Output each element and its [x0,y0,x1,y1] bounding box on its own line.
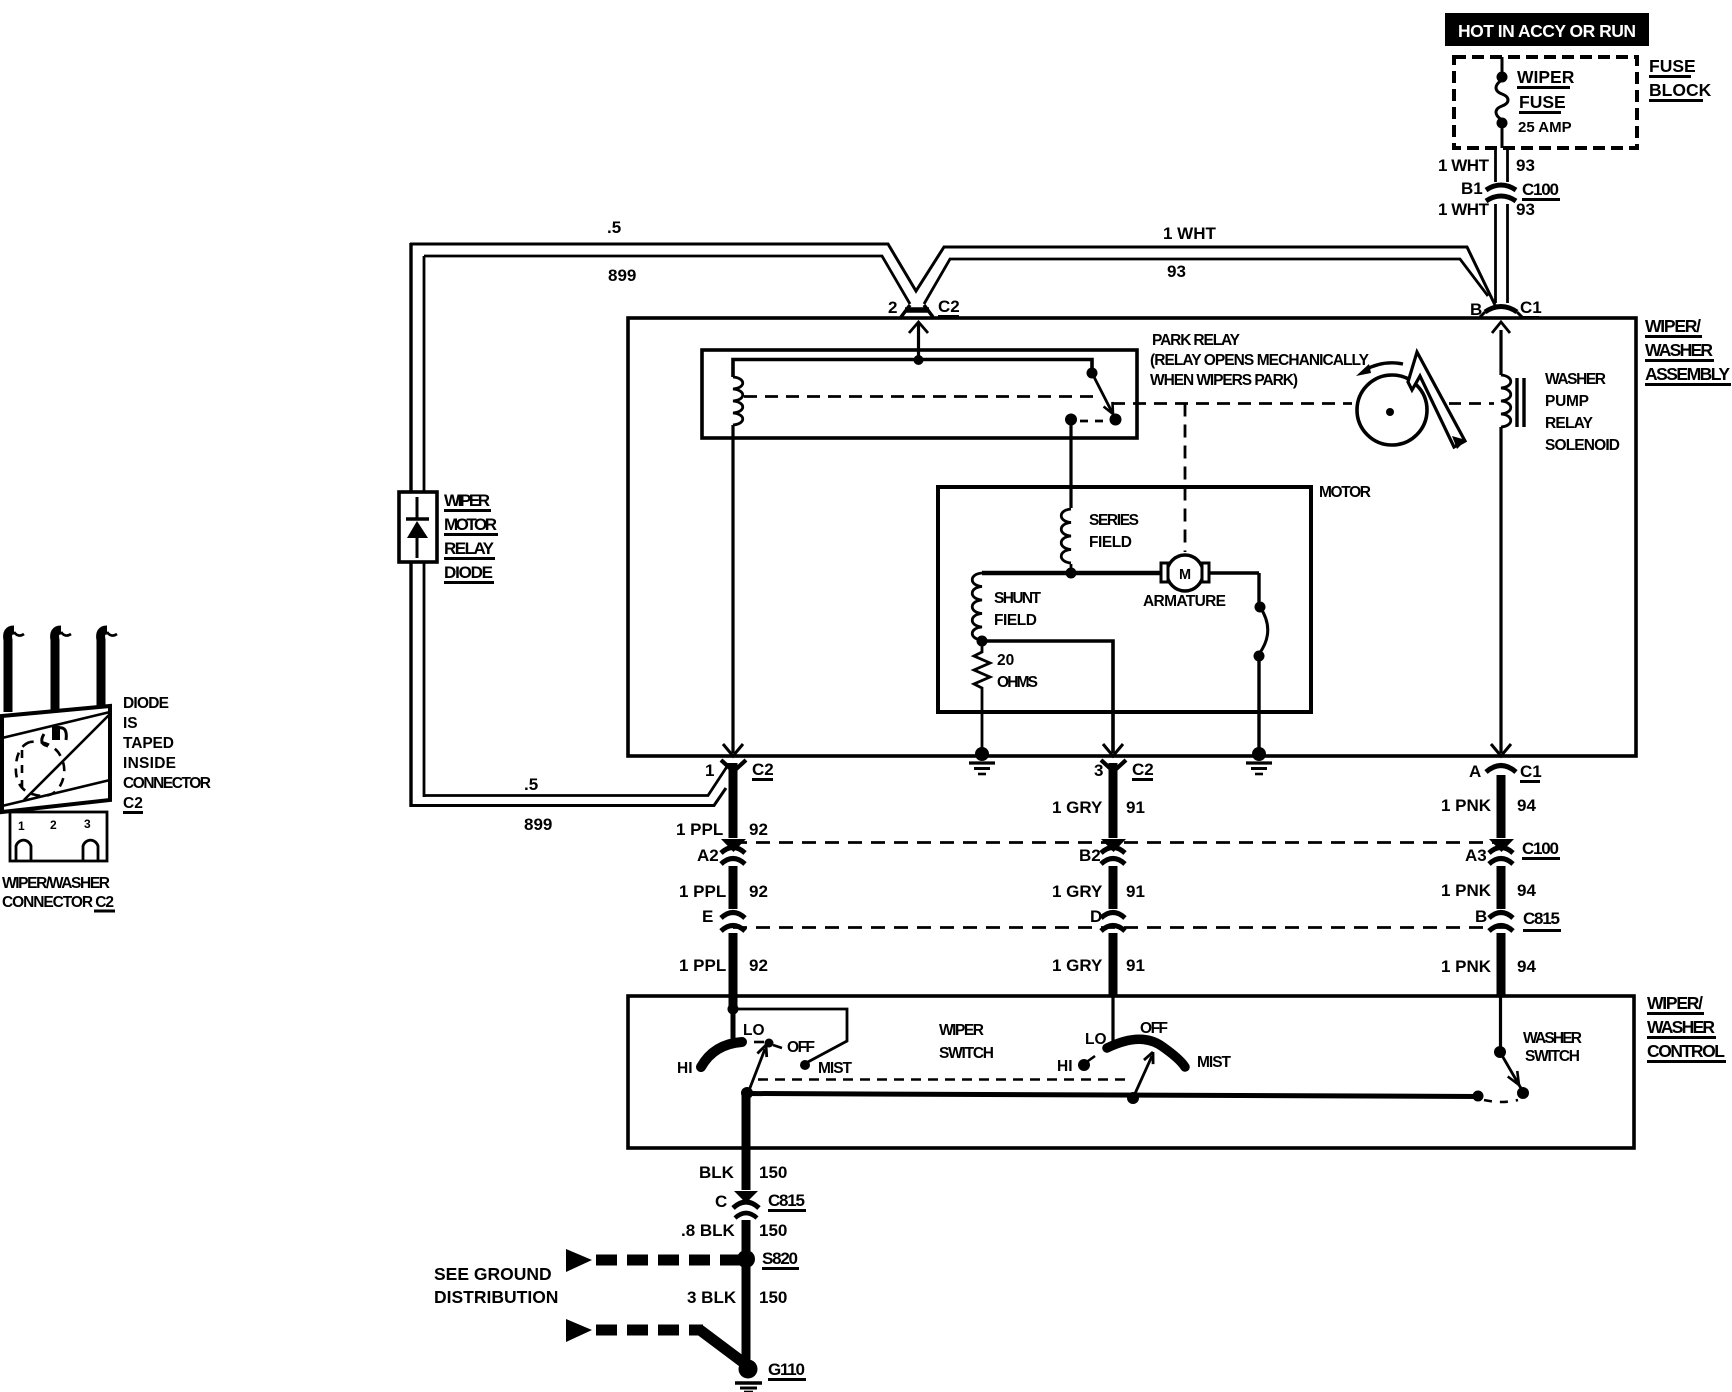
svg-text:94: 94 [1517,957,1536,976]
label washer pump relay solenoid [1545,371,1620,454]
svg-text:C2: C2 [938,297,960,316]
HI contact dot right [1078,1059,1090,1071]
svg-text:WIPER: WIPER [939,1022,984,1039]
svg-text:S820: S820 [762,1249,798,1268]
svg-text:3 BLK: 3 BLK [687,1288,737,1307]
wire fuse to C100 (ckt 93) [1496,148,1508,182]
svg-text:1 PNK: 1 PNK [1441,881,1492,900]
label WIPER/WASHER ASSEMBLY [1645,316,1731,385]
labels wire gauges row 2 [679,881,1536,901]
svg-text:B2: B2 [1079,846,1101,865]
fuse block dashed box [1454,57,1637,148]
svg-text:C100: C100 [1522,180,1559,199]
connector C2 pin 1 (arrow down + symbol) [705,744,774,780]
armature brush circuit to ground [1209,573,1268,754]
splice S820 [737,1249,799,1269]
svg-text:C1: C1 [1520,298,1542,317]
svg-text:1 GRY: 1 GRY [1052,798,1103,817]
wiper/washer connector C2 body (diode taped inside) [2,706,110,812]
svg-text:A: A [1469,762,1481,781]
svg-text:WIPER: WIPER [444,491,490,510]
fuse block label [1649,56,1712,101]
wiper switch left wiper blade [748,1043,771,1093]
svg-text:G110: G110 [768,1360,805,1379]
wire coil to C2 pin 1 exit [731,425,734,753]
svg-text:150: 150 [759,1221,787,1240]
svg-text:B: B [1470,300,1482,319]
svg-text:HI: HI [1057,1058,1073,1075]
svg-text:RELAY: RELAY [1545,415,1594,432]
svg-text:MIST: MIST [818,1060,853,1077]
wire C2 pin2 into park relay coil (arrow up) [909,322,928,365]
svg-text:.5: .5 [524,775,538,794]
wire resistor to ground [981,692,984,754]
ground G (shunt) [969,747,995,774]
ground distribution branch upper (dashed) [566,1249,740,1272]
power feed banner HOT IN ACCY OR RUN [1445,13,1649,46]
ground G110 [735,1360,806,1392]
svg-text:C100: C100 [1522,839,1559,858]
svg-text:150: 150 [759,1163,787,1182]
svg-text:RELAY: RELAY [444,539,495,558]
labels wire gauges row 3 [679,956,1536,976]
svg-text:899: 899 [524,815,552,834]
wiper motor relay diode CR1 [399,492,437,562]
connector C100 pin A3 [1465,839,1514,865]
svg-text:OFF: OFF [1140,1020,1168,1037]
node series field / shunt junction [1066,568,1077,579]
svg-text:91: 91 [1126,798,1145,817]
park relay box [702,350,1137,438]
wire switch common bus [747,1094,1478,1097]
cam rotation dashed line to washer pump relay [1449,402,1494,405]
svg-text:C2: C2 [752,760,774,779]
svg-text:CONNECTOR: CONNECTOR [123,775,211,792]
svg-text:WASHER: WASHER [1647,1017,1715,1037]
connector C1 pin B [1470,298,1542,319]
svg-text:FUSE: FUSE [1519,92,1566,112]
svg-text:3: 3 [1094,761,1103,780]
svg-text:MIST: MIST [1197,1054,1232,1071]
wiper/washer assembly box [628,318,1636,756]
svg-text:WIPER/WASHER: WIPER/WASHER [2,875,110,892]
wire PPL to LO contact [731,1009,736,1042]
wire 1 PNK 94 upper [1497,775,1506,838]
svg-text:OFF: OFF [787,1039,815,1056]
svg-text:.8 BLK: .8 BLK [681,1221,736,1240]
svg-text:1 PPL: 1 PPL [679,882,726,901]
svg-text:WIPER/: WIPER/ [1647,993,1703,1013]
svg-text:20: 20 [997,652,1014,669]
svg-text:899: 899 [608,266,636,285]
svg-text:OHMS: OHMS [997,674,1038,691]
wiper switch right LO-OFF-MIST contact arc [1107,1039,1185,1067]
svg-text:.5: .5 [607,218,621,237]
wiper switch left HI-LO contact arc [701,1042,742,1067]
wire 1 PPL 92 lower [729,933,738,1009]
svg-text:E: E [702,907,713,926]
wire 1 PPL 92 upper [729,763,738,838]
svg-text:C815: C815 [1523,909,1560,928]
wire shunt tap to C2 pin 3 exit [982,641,1113,753]
svg-text:CONNECTOR C2: CONNECTOR C2 [2,894,114,911]
wire 1 GRY 91 lower [1109,933,1118,997]
svg-text:PUMP: PUMP [1545,393,1589,410]
MIST contact dot left [800,1060,810,1070]
svg-text:150: 150 [759,1288,787,1307]
svg-text:MOTOR: MOTOR [444,515,497,534]
cam follower lever [1408,352,1466,449]
connector C100 dashed boundary [733,839,1560,859]
svg-text:HOT IN ACCY OR RUN: HOT IN ACCY OR RUN [1458,21,1636,41]
label WIPER/WASHER CONTROL [1647,993,1726,1062]
wire field bus to armature [982,571,1162,576]
connector C100 pin B1 [1461,179,1560,201]
wire 1 GRY 91 upper [1109,763,1118,838]
wiper switch right wiper blade [1133,1050,1158,1098]
connector C815 pin C [715,1191,806,1218]
node wiper switch common [741,1087,753,1099]
svg-text:WIPER/: WIPER/ [1645,316,1701,336]
washer switch fixed contact [1473,1091,1484,1102]
svg-text:91: 91 [1126,956,1145,975]
connector C815 pin B [1475,907,1513,931]
svg-text:(RELAY OPENS MECHANICALLY: (RELAY OPENS MECHANICALLY [1150,352,1370,369]
wire 1 GRY 91 middle [1109,866,1118,909]
svg-text:DISTRIBUTION: DISTRIBUTION [434,1287,558,1307]
svg-text:SERIES: SERIES [1089,512,1139,529]
svg-text:FIELD: FIELD [994,612,1037,629]
wire ckt 899 left drop to diode [411,243,424,492]
wire to MIST contact [733,1009,847,1063]
svg-text:92: 92 [749,882,768,901]
diode label WIPER MOTOR RELAY DIODE [444,491,498,583]
connector C1 pin A (arrow down + symbol) [1469,744,1542,782]
svg-text:93: 93 [1516,200,1535,219]
wire 1 PNK 94 middle [1497,866,1506,909]
svg-text:WASHER: WASHER [1545,371,1606,388]
label WASHER SWITCH [1523,1030,1582,1065]
svg-text:1 PNK: 1 PNK [1441,957,1492,976]
label BLK 150 [699,1163,787,1182]
svg-text:1 PPL: 1 PPL [676,820,723,839]
series field winding [1061,509,1139,573]
shunt field winding [972,573,1041,640]
svg-text:SHUNT: SHUNT [994,590,1042,607]
svg-text:93: 93 [1516,156,1535,175]
svg-text:SWITCH: SWITCH [1525,1048,1580,1065]
svg-text:LO: LO [743,1022,765,1039]
svg-text:ARMATURE: ARMATURE [1143,593,1226,610]
svg-text:25 AMP: 25 AMP [1518,119,1572,136]
svg-text:TAPED: TAPED [123,735,174,752]
ground G (armature) [1246,747,1272,774]
svg-text:INSIDE: INSIDE [123,755,176,772]
connector C2 pin 2 [888,297,960,317]
washer switch travel dashes [1484,1100,1518,1102]
park relay label [1150,332,1370,389]
svg-text:1 WHT: 1 WHT [1438,200,1490,219]
wiper switch right labels [1057,1020,1232,1075]
svg-text:3: 3 [84,817,91,831]
svg-text:FUSE: FUSE [1649,56,1696,76]
svg-text:1 PNK: 1 PNK [1441,796,1492,815]
wire .8 BLK 150 [742,1220,751,1253]
connector C2 pin 3 (arrow down + symbol) [1094,744,1154,780]
svg-text:1: 1 [705,761,714,780]
svg-text:1 GRY: 1 GRY [1052,956,1103,975]
svg-text:SOLENOID: SOLENOID [1545,437,1620,454]
node right switch pivot [1127,1092,1139,1104]
svg-text:C2: C2 [123,795,143,812]
svg-text:91: 91 [1126,882,1145,901]
label .5 899 lower run [524,775,552,834]
svg-text:94: 94 [1517,881,1536,900]
park relay internal top wire [733,360,1092,378]
ground distribution branch lower (dashed) [566,1319,744,1363]
label .8 BLK 150 [681,1221,787,1240]
label 1 WHT 93 horizontal run [1163,224,1217,281]
wire C100 to C1 (ckt 93) [1496,204,1508,303]
svg-text:D: D [1090,907,1102,926]
LO contact dot left [765,1039,774,1048]
label SEE GROUND DISTRIBUTION [434,1264,558,1307]
svg-text:1: 1 [18,819,25,833]
svg-text:94: 94 [1517,796,1536,815]
connector C100 pin A2 [697,839,746,865]
wire park relay contact to series field [1069,419,1072,508]
svg-text:1 GRY: 1 GRY [1052,882,1103,901]
svg-text:A3: A3 [1465,846,1487,865]
wiper switch left labels [677,1022,853,1077]
wire ckt 899 diode down and across to C2 pin 1 [410,562,729,807]
svg-text:WASHER: WASHER [1523,1030,1582,1047]
connector C2 face with cavities 1 2 3 [10,812,107,861]
armature M1 [1143,555,1226,610]
svg-text:DIODE: DIODE [123,695,169,712]
svg-text:PARK RELAY: PARK RELAY [1152,332,1241,349]
switch mechanical link (dashed) [758,1078,1130,1081]
wire ckt 899 top run (.5 BLK) left of C2 crossover [410,244,1495,305]
svg-text:HI: HI [677,1060,693,1077]
svg-text:B1: B1 [1461,179,1483,198]
label 1 WHT 93 lower [1438,200,1535,219]
svg-text:BLK: BLK [699,1163,735,1182]
svg-text:WHEN WIPERS PARK): WHEN WIPERS PARK) [1150,372,1298,389]
washer switch pivot node [1494,1046,1506,1058]
label 3 BLK 150 [687,1288,787,1307]
svg-text:SEE GROUND: SEE GROUND [434,1264,552,1284]
wire 3 BLK 150 [742,1259,751,1362]
label 1 WHT 93 upper [1438,156,1535,175]
wiper/washer control box [628,996,1634,1148]
svg-text:C: C [715,1192,727,1211]
svg-text:MOTOR: MOTOR [1319,484,1371,501]
connector C815 pin D [1090,907,1125,931]
svg-text:BLOCK: BLOCK [1649,80,1712,100]
svg-text:1 PPL: 1 PPL [679,956,726,975]
svg-text:WIPER: WIPER [1517,67,1575,87]
washer switch blade [1500,1052,1529,1099]
svg-text:FIELD: FIELD [1089,534,1132,551]
svg-text:92: 92 [749,956,768,975]
svg-text:C2: C2 [1132,760,1154,779]
motor box [938,487,1311,712]
svg-text:M: M [1179,567,1191,583]
label .5 899 [607,218,636,285]
fuse F1 WIPER FUSE 25 AMP [1496,57,1575,148]
svg-text:C815: C815 [768,1191,805,1210]
dashed line to armature [1184,404,1187,553]
svg-text:2: 2 [50,818,57,832]
label WIPER/WASHER CONNECTOR C2 [2,875,115,911]
svg-text:1 WHT: 1 WHT [1438,156,1490,175]
svg-text:C1: C1 [1520,762,1542,781]
svg-text:B: B [1475,907,1487,926]
wire 1 PPL 92 middle [729,866,738,909]
svg-text:ASSEMBLY: ASSEMBLY [1645,364,1730,384]
wire BLK 150 from switch common to C815 [742,1093,751,1190]
svg-text:IS: IS [123,715,138,732]
resistor 20 OHMS [974,646,1038,692]
park relay contact dashed control line [744,395,1097,398]
park relay coil L1 [733,377,743,425]
note DIODE IS TAPED INSIDE CONNECTOR C2 [123,695,211,813]
label WIPER SWITCH [939,1022,994,1062]
park relay switch contacts [1065,368,1122,426]
node PPL wire into wiper switch [728,1004,739,1015]
svg-text:93: 93 [1167,262,1186,281]
svg-text:92: 92 [749,820,768,839]
svg-text:WASHER: WASHER [1645,340,1713,360]
connector C100 pin B2 [1079,839,1126,865]
wiper/washer connector C2 pigtail wires [8,630,117,712]
wiper park cam [1356,363,1427,445]
svg-text:SWITCH: SWITCH [939,1045,994,1062]
node shunt field tap [977,636,988,647]
svg-text:CONTROL: CONTROL [1647,1041,1725,1061]
svg-text:DIODE: DIODE [444,563,493,582]
wire 1 PNK 94 lower [1497,933,1506,997]
labels wire gauges row 1 [676,796,1536,839]
connector C815 dashed boundary [733,909,1561,931]
svg-text:A2: A2 [697,846,719,865]
connector C815 pin E [702,907,745,931]
svg-text:1 WHT: 1 WHT [1163,224,1217,243]
svg-text:2: 2 [888,298,897,317]
washer pump relay solenoid L2 [1492,322,1524,753]
